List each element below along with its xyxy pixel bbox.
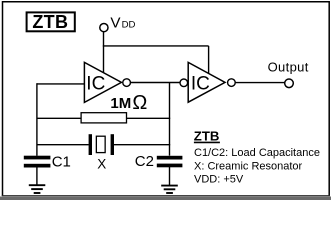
wire left vertical (36, 83, 38, 156)
notes heading ZTB (194, 128, 220, 143)
wire resonator line right (114, 144, 170, 146)
wire resistor line left (37, 117, 82, 119)
wire C2 to ground (169, 167, 171, 185)
capacitor C2 (157, 156, 183, 168)
wire resonator line left (37, 144, 89, 146)
svg-text:C2: C2 (135, 153, 154, 170)
wire VDD drop to IC1 (103, 32, 105, 73)
svg-text:ZTB: ZTB (194, 128, 220, 143)
svg-text:Output: Output (268, 60, 309, 75)
wire VDD branch horizontal (103, 45, 209, 47)
output terminal (285, 79, 294, 88)
svg-text:ZTB: ZTB (32, 12, 68, 32)
svg-text:1M: 1M (110, 95, 131, 112)
svg-text:C1: C1 (52, 154, 71, 171)
wire C1 to ground (36, 167, 38, 185)
svg-text:IC: IC (191, 73, 210, 94)
VDD terminal (100, 24, 108, 32)
svg-text:V: V (110, 15, 121, 32)
svg-text:Ω: Ω (132, 92, 147, 114)
capacitor C1 (24, 156, 51, 168)
wire resistor line right (127, 117, 171, 119)
resistor R1 1M (81, 113, 126, 123)
svg-text:X: X (97, 157, 106, 172)
ground right (161, 186, 178, 193)
wire right vertical (169, 82, 171, 155)
resistor value 1M ohm (110, 92, 147, 114)
wire VDD drop to IC2 (208, 46, 210, 74)
svg-text:C1/C2: Load Capacitance: C1/C2: Load Capacitance (194, 147, 320, 159)
svg-text:X: Creamic Resonator: X: Creamic Resonator (194, 160, 303, 172)
svg-text:IC: IC (86, 73, 105, 94)
wire signal line IC1 out to IC2 in (131, 82, 181, 84)
inverter IC1 (84, 62, 130, 102)
ground left (29, 185, 46, 193)
crystal X ceramic resonator (89, 134, 114, 155)
ZTB logo box (27, 12, 75, 32)
VDD label (110, 15, 135, 32)
svg-text:VDD: +5V: VDD: +5V (194, 174, 244, 186)
svg-text:DD: DD (122, 20, 136, 31)
wire IC1 input line (37, 83, 85, 85)
inverter IC2 (180, 62, 235, 102)
wire output line (235, 82, 285, 84)
